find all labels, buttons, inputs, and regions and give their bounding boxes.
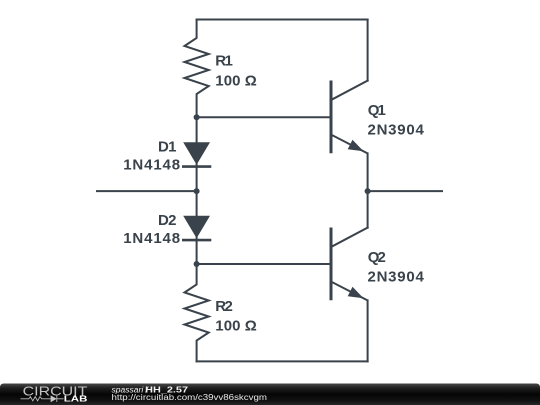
svg-text:2N3904: 2N3904 — [368, 121, 425, 138]
svg-text:2N3904: 2N3904 — [368, 268, 425, 285]
svg-text:R2: R2 — [215, 298, 233, 315]
svg-text:1N4148: 1N4148 — [123, 156, 180, 173]
svg-text:100 Ω: 100 Ω — [215, 72, 256, 89]
svg-text:100 Ω: 100 Ω — [215, 317, 256, 334]
svg-text:LAB: LAB — [64, 395, 88, 404]
svg-text:Q2: Q2 — [368, 249, 386, 266]
svg-text:D1: D1 — [158, 138, 177, 155]
svg-text:http://circuitlab.com/c39vv86s: http://circuitlab.com/c39vv86skcvgm — [112, 393, 268, 402]
svg-text:R1: R1 — [215, 52, 233, 69]
svg-text:D2: D2 — [158, 212, 177, 229]
svg-text:Q1: Q1 — [368, 102, 386, 119]
svg-text:1N4148: 1N4148 — [123, 230, 180, 247]
